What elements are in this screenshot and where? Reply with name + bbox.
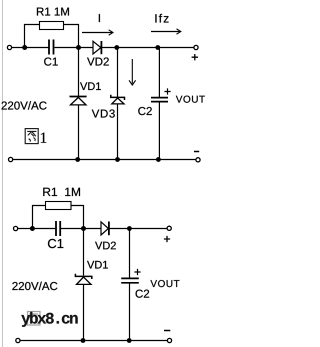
node junction B2 [81,226,86,231]
label plus output 2 [164,236,170,242]
label Ifz [155,14,168,23]
wire VD3 branch upper [117,48,119,98]
terminal output bottom-right [196,158,200,162]
label I [99,14,100,22]
capacitor C1 left plate [48,40,50,55]
wire C2 branch lower [158,102,160,160]
label VD1 2 [87,261,108,269]
node C2 bottom 2 [127,338,132,343]
wire top rail 2 VD2 to output [110,228,168,230]
label R1 1M [37,8,69,16]
diode VD2 triangle 2 [101,222,108,235]
terminal output bottom-right 2 [167,338,171,342]
terminal AC input top-left [7,45,11,49]
node VD3 bottom [115,157,120,162]
label C2 [138,107,152,115]
label plus C2 polarity [164,88,170,94]
zener VD3 triangle pointing up [112,98,124,104]
label VOUT 2 [150,280,179,287]
wire bottom rail 2 [20,340,167,342]
wire top rail VD2 to output [102,47,194,49]
capacitor C1 left plate 2 [55,221,57,236]
node junction C2 tap 2 [127,226,132,231]
diode VD1 cathode bar [70,96,87,98]
wire VD1 branch lower [78,105,80,160]
label C1 [44,57,58,65]
node junction D [155,45,160,50]
node junction A2 [30,226,35,231]
wire bottom rail [13,159,196,161]
wire top rail to C1 [12,47,49,49]
current arrow Ifz [151,29,181,34]
wire R1 branch left [25,25,41,48]
watermark text ybx8.cn [21,312,77,327]
terminal output top-right [194,45,198,49]
capacitor C1 right plate [53,40,55,55]
wire C2 branch upper [158,48,160,98]
diode VD2 cathode bar [100,41,102,54]
page left border [2,0,4,347]
node junction C [114,45,119,50]
label 220V/AC [2,101,47,109]
label C1 2 [48,239,63,248]
wire VD3 branch lower [117,104,119,160]
current arrow I [82,30,113,35]
current arrow down through VD3 [129,59,136,85]
terminal AC input bottom-left 2 [16,338,20,342]
label 220V/AC 2 [12,282,57,290]
label minus output 2 [164,330,170,332]
capacitor C2 bottom plate [151,101,168,103]
diode VD2 cathode bar 2 [108,222,110,236]
wire VD1 branch upper [78,48,80,97]
wire VD1 branch upper 2 [83,229,85,276]
zener VD3 cathode bar with ticks [111,95,125,100]
wire C2 branch upper 2 [129,229,131,279]
wire C2 branch lower 2 [129,283,131,341]
node VD1 bottom [75,157,80,162]
node junction B [76,45,81,50]
label plus output [192,54,198,60]
terminal AC input top-left 2 [14,226,18,230]
node C2 bottom [156,157,161,162]
label VOUT [176,96,205,103]
capacitor C2 top plate 2 [121,277,139,279]
wire R1 branch 2 right [71,206,84,229]
wire top rail 2 to C1 [18,228,55,230]
diode VD2 triangle [93,41,101,54]
label VD1 [80,82,101,90]
capacitor C1 right plate 2 [59,221,61,236]
resistor R1 [40,22,64,30]
label C2 2 [136,290,150,298]
label VD3 [92,109,115,117]
wire top rail C1 to VD2 [54,47,93,49]
terminal output top-right 2 [167,226,171,230]
resistor R1 2 [46,202,72,210]
node VD1 bottom 2 [81,338,86,343]
wire top rail 2 C1 to VD2 [61,228,101,230]
capacitor C2 bottom plate 2 [121,282,139,284]
label figure 1 chinese char [25,129,38,144]
zener VD1 cathode bar with ticks 2 [75,274,91,279]
label VD2 [87,57,109,65]
label figure 1 digit [41,133,46,143]
label plus C2 polarity 2 [134,269,140,275]
terminal AC input bottom-left [9,157,13,161]
label minus output [194,151,199,153]
watermark gray box glyph [28,312,41,326]
node junction A [22,45,27,50]
label R1 1M 2 [43,188,80,196]
wire VD1 branch lower 2 [83,284,85,340]
label VD2 2 [95,242,116,250]
wire R1 branch right [64,25,79,48]
wire R1 branch 2 left [33,206,47,229]
capacitor C2 top plate [151,97,168,99]
zener VD1 triangle pointing up 2 [77,277,92,284]
diode VD1 triangle pointing up [71,97,87,105]
